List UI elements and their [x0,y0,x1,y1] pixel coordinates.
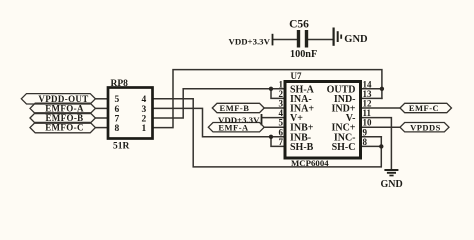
svg-text:RP8: RP8 [111,79,129,89]
svg-text:13: 13 [363,89,373,99]
svg-text:4: 4 [142,95,147,105]
svg-text:U7: U7 [291,71,302,81]
svg-text:6: 6 [279,127,284,137]
svg-text:1: 1 [142,124,147,134]
svg-text:14: 14 [363,79,373,89]
svg-text:1: 1 [279,79,284,89]
svg-text:5: 5 [115,95,120,105]
svg-text:3: 3 [279,99,284,109]
svg-text:GND: GND [381,179,403,190]
svg-text:10: 10 [363,118,373,128]
svg-text:5: 5 [279,118,284,128]
svg-text:C56: C56 [289,18,309,30]
svg-text:2: 2 [279,89,284,99]
svg-text:EMF-C: EMF-C [409,103,439,113]
svg-text:100nF: 100nF [290,49,317,60]
svg-text:SH-C: SH-C [332,142,356,153]
svg-text:VPDD-OUT: VPDD-OUT [38,94,88,104]
svg-text:8: 8 [115,124,120,134]
svg-text:51R: 51R [113,142,130,152]
svg-text:6: 6 [115,105,120,115]
svg-text:EMFO-C: EMFO-C [45,123,84,133]
svg-text:GND: GND [344,34,368,45]
svg-text:2: 2 [142,114,147,124]
svg-text:EMFO-B: EMFO-B [45,113,83,123]
svg-text:4: 4 [279,108,284,118]
svg-text:8: 8 [363,137,368,147]
svg-text:VPDDS: VPDDS [410,122,441,132]
svg-text:12: 12 [363,99,373,109]
svg-text:7: 7 [115,114,120,124]
svg-text:EMF-B: EMF-B [220,103,250,113]
svg-text:EMFO-A: EMFO-A [45,104,84,114]
svg-text:VDD+3.3V: VDD+3.3V [218,115,260,125]
svg-text:SH-B: SH-B [290,142,314,153]
svg-text:7: 7 [279,137,284,147]
svg-text:3: 3 [142,105,147,115]
svg-text:9: 9 [363,127,368,137]
svg-text:11: 11 [363,108,372,118]
svg-text:MCP6004: MCP6004 [291,158,329,168]
svg-text:VDD+3.3V: VDD+3.3V [229,36,271,46]
